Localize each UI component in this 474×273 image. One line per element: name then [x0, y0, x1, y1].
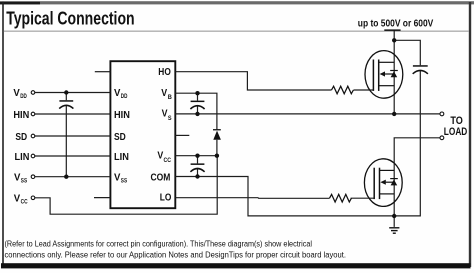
svg-text:(Refer to Lead Assignments for: (Refer to Lead Assignments for correct p…	[5, 240, 313, 249]
wire diode anode to VCC row	[216, 140, 218, 156]
svg-text:COM: COM	[151, 172, 171, 184]
svg-text:SS: SS	[21, 178, 28, 185]
capacitor C2 plates (bootstrap VB-VS)	[190, 101, 204, 109]
svg-text:LIN: LIN	[114, 151, 129, 163]
svg-text:V: V	[13, 87, 19, 99]
frame bottom bar	[1, 263, 471, 268]
node switch/VS junction	[392, 112, 396, 116]
svg-text:LOAD: LOAD	[444, 126, 468, 138]
capacitor C3 plates (VCC-COM decoupling)	[190, 163, 204, 171]
svg-text:TO: TO	[450, 115, 463, 127]
left external pin labels	[13, 87, 29, 206]
svg-text:HIN: HIN	[114, 109, 130, 121]
ground symbol	[389, 228, 399, 233]
HV supply bar	[384, 29, 400, 31]
node VDD-cap junction	[64, 90, 68, 94]
svg-text:V: V	[114, 172, 120, 184]
frame right border	[469, 2, 471, 267]
wire HIN terminal to IC	[35, 113, 111, 115]
node VS-cap junction	[195, 112, 199, 116]
svg-text:V: V	[14, 193, 20, 205]
terminal VDD	[31, 91, 35, 95]
svg-text:V: V	[114, 87, 120, 99]
terminal LOAD (low drain)	[440, 136, 444, 140]
node VSS-cap junction	[64, 175, 68, 179]
capacitor C4 bottom lead down to ground line	[394, 70, 420, 216]
resistor R2 (LO gate)	[330, 194, 352, 202]
terminal VCC	[31, 196, 35, 200]
wire VCC terminal down and under IC to VCC pin column	[35, 156, 217, 215]
svg-text:V: V	[161, 87, 167, 99]
wire rail node to bus capacitor column	[394, 40, 420, 65]
wire stub into IC left at LO row	[94, 197, 110, 199]
wire SD terminal to IC	[35, 135, 111, 137]
bootstrap capacitor C2 leads	[197, 93, 199, 100]
wire rail node down through Q1 drain/source column to switch node	[393, 40, 395, 114]
wire VDD terminal to IC	[35, 92, 111, 94]
diode D1 (bootstrap)	[213, 129, 221, 140]
node VB-cap junction	[195, 91, 199, 95]
node VCC-cap junction	[195, 154, 199, 158]
wire LO pin right to gate resistor	[175, 197, 329, 200]
wire HO pin right, down, to gate resistor	[175, 72, 331, 90]
wire COM pin right, down, to ground node	[175, 177, 394, 216]
wire VSS terminal to IC	[35, 176, 111, 178]
svg-text:SS: SS	[121, 178, 128, 185]
wire Q2 gate lead	[351, 197, 375, 199]
capacitor C3 leads (VCC-COM)	[197, 156, 199, 164]
capacitor C4 plates (HV bus)	[413, 65, 428, 74]
ground stub below node	[393, 216, 395, 227]
wire VS pin right to switch node and TO terminal	[175, 113, 440, 115]
node HV rail junction	[392, 38, 396, 42]
svg-text:DD: DD	[20, 93, 27, 100]
svg-text:HIN: HIN	[13, 109, 29, 121]
svg-text:S: S	[168, 115, 172, 122]
wire LOAD terminal line down through Q2 drain/source column to ground node	[394, 138, 440, 216]
terminal TO (switch node)	[440, 112, 444, 116]
wire VB pin to bootstrap column	[175, 93, 217, 129]
terminal SD	[31, 134, 35, 138]
svg-text:LIN: LIN	[15, 151, 30, 163]
svg-text:SD: SD	[114, 131, 126, 143]
wire VCC pin row	[175, 155, 217, 157]
capacitor C1 plates (VDD-VSS decoupling)	[59, 100, 73, 108]
title underline rule	[4, 31, 469, 32]
terminal HIN	[31, 112, 35, 116]
wire Q1 gate lead	[354, 89, 374, 91]
svg-text:HO: HO	[158, 66, 171, 78]
svg-text:CC: CC	[164, 157, 172, 164]
transistor Q1 (high-side MOSFET)	[365, 51, 403, 99]
svg-text:DD: DD	[121, 93, 128, 100]
IC pin labels inside	[114, 66, 172, 203]
wire stub into IC left at HO row	[95, 71, 111, 73]
node ground junction	[392, 214, 396, 218]
svg-text:B: B	[168, 94, 172, 101]
resistor R1 (HO gate)	[332, 86, 354, 94]
svg-text:SD: SD	[15, 131, 27, 143]
transistor Q2 (low-side MOSFET)	[364, 159, 402, 207]
capacitor C1 leads (VDD-VSS)	[65, 93, 67, 101]
svg-text:up to 500V or 600V: up to 500V or 600V	[358, 19, 434, 30]
svg-text:LO: LO	[160, 192, 172, 204]
frame top bar	[0, 1, 474, 4]
IC U1 box	[110, 61, 175, 208]
wire HV supply bar down to rail node	[393, 31, 395, 41]
svg-text:CC: CC	[21, 199, 28, 206]
wire stub at unlabeled right pin	[175, 134, 189, 136]
svg-text:V: V	[162, 108, 168, 120]
wire LIN terminal to IC	[35, 155, 111, 157]
terminal VSS	[31, 175, 35, 179]
svg-text:Typical Connection: Typical Connection	[6, 9, 134, 29]
svg-text:connections only. Please refe: connections only. Please refer to our Ap…	[5, 250, 347, 259]
svg-text:V: V	[157, 149, 163, 161]
node VCC-diode junction	[215, 154, 219, 158]
terminal LIN	[31, 154, 35, 158]
node COM-cap junction	[195, 174, 199, 178]
frame left border	[2, 2, 4, 268]
svg-text:V: V	[14, 172, 20, 184]
